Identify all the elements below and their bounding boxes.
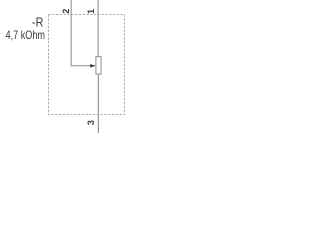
potentiometer R body <box>96 57 101 75</box>
wire pin 3 (vertical) <box>97 74 99 133</box>
svg-text:-R: -R <box>32 15 43 30</box>
wiper arrowhead <box>90 64 96 67</box>
wire pin 1 (vertical) <box>97 0 99 57</box>
component outline (dashed box) <box>49 15 125 115</box>
svg-text:4,7 kOhm: 4,7 kOhm <box>6 29 46 42</box>
wire pin 2 + wiper (L-shaped) <box>71 0 90 66</box>
svg-text:2: 2 <box>61 9 71 14</box>
background <box>0 0 133 133</box>
svg-text:1: 1 <box>86 9 96 14</box>
svg-text:3: 3 <box>86 120 96 125</box>
